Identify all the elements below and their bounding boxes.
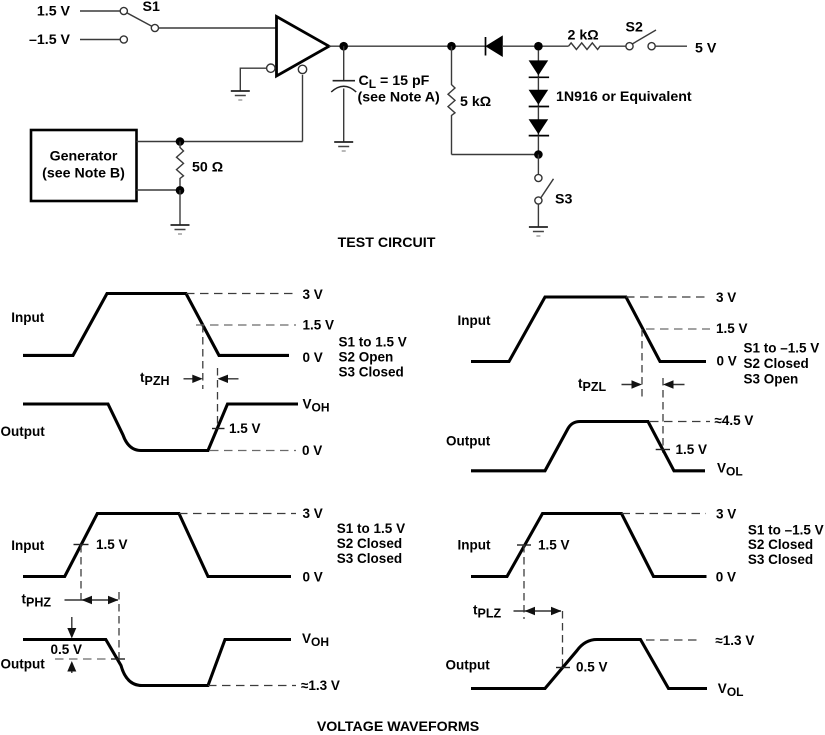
output waveform — [471, 422, 705, 471]
svg-text:S1 to 1.5 V: S1 to 1.5 V — [339, 335, 407, 350]
svg-text:S3: S3 — [555, 192, 572, 208]
svg-text:Output: Output — [1, 424, 46, 439]
resistor 5 kohm — [448, 46, 455, 154]
vertical dashed at output crossing — [562, 611, 564, 670]
ground — [334, 142, 353, 151]
node before diode — [447, 42, 456, 51]
svg-text:1.5 V: 1.5 V — [676, 442, 708, 457]
svg-text:Input: Input — [11, 310, 44, 325]
input waveform — [23, 514, 291, 577]
svg-text:S1 to 1.5 V: S1 to 1.5 V — [337, 521, 405, 536]
svg-text:1.5 V: 1.5 V — [229, 421, 261, 436]
svg-text:S3 Open: S3 Open — [744, 372, 799, 387]
capacitor CL — [331, 46, 356, 142]
svg-text:–1.5 V: –1.5 V — [29, 32, 71, 48]
input waveform — [471, 297, 706, 362]
vertical dashed at input crossing — [80, 545, 82, 605]
svg-text:0 V: 0 V — [303, 570, 323, 585]
up arrow 0.5V — [67, 661, 76, 673]
vertical dashed at output crossing — [217, 368, 219, 429]
svg-text:5 kΩ: 5 kΩ — [460, 94, 491, 110]
dashed 3V level — [186, 293, 296, 295]
wire S1 pole to buffer input — [159, 27, 277, 29]
svg-text:2 kΩ: 2 kΩ — [568, 28, 599, 44]
node — [176, 186, 185, 195]
output waveform — [23, 404, 298, 451]
svg-text:3 V: 3 V — [716, 290, 736, 305]
svg-text:S3 Closed: S3 Closed — [337, 551, 402, 566]
resistor 2 kohm — [569, 43, 626, 50]
dashed 1.5V level — [196, 324, 296, 326]
tPHZ arrow — [65, 596, 119, 604]
svg-text:S3 Closed: S3 Closed — [748, 552, 813, 567]
wire left bubble to ground — [240, 68, 266, 91]
dashed 3V level — [626, 296, 710, 298]
dashed 3V level — [622, 513, 707, 515]
svg-text:0 V: 0 V — [716, 569, 736, 584]
wire from -1.5V terminal — [80, 39, 120, 41]
diode D0 horizontal — [486, 36, 503, 56]
wire right bubble down to generator net — [302, 75, 304, 142]
svg-text:3 V: 3 V — [303, 506, 323, 521]
input waveform — [23, 294, 289, 356]
svg-text:Output: Output — [446, 657, 491, 672]
tick 0.5V on output edge — [556, 667, 570, 669]
wire buffer output bus — [329, 45, 486, 47]
svg-text:S3 Closed: S3 Closed — [339, 365, 404, 380]
vertical dashed at input crossing — [523, 545, 525, 619]
wire from 1.5V to S1 throw — [80, 10, 120, 12]
svg-text:S2 Closed: S2 Closed — [337, 536, 402, 551]
svg-text:(see Note A): (see Note A) — [358, 90, 441, 106]
dashed 1.3V level — [208, 685, 296, 687]
vertical dashed at input crossing — [202, 325, 204, 389]
svg-text:0 V: 0 V — [717, 354, 737, 369]
svg-text:≈1.3 V: ≈1.3 V — [715, 633, 754, 648]
svg-text:S1 to –1.5 V: S1 to –1.5 V — [744, 341, 820, 356]
svg-text:(see Note B): (see Note B) — [42, 166, 125, 182]
enable bubble right — [298, 65, 306, 73]
svg-text:0 V: 0 V — [303, 350, 323, 365]
wire node to ground — [179, 190, 181, 225]
switch S2 — [626, 30, 656, 50]
svg-text:S2: S2 — [626, 20, 643, 36]
svg-text:0 V: 0 V — [302, 443, 322, 458]
svg-text:3 V: 3 V — [303, 287, 323, 302]
diode stack 1N916 — [529, 50, 550, 154]
node above diode stack — [534, 42, 543, 51]
svg-text:0.5 V: 0.5 V — [51, 642, 83, 657]
dashed VOH-0.5 level — [55, 658, 110, 660]
svg-text:S2 Open: S2 Open — [339, 350, 394, 365]
wire diode to node — [502, 45, 569, 47]
svg-text:Input: Input — [11, 538, 44, 553]
dashed 1.3V level — [646, 639, 701, 641]
node at buffer output — [339, 42, 348, 51]
svg-text:Generator: Generator — [50, 149, 118, 165]
svg-text:Input: Input — [458, 537, 491, 552]
switch S3 — [535, 155, 554, 228]
tick 0.5V on output edge — [111, 658, 125, 660]
wire S2 to 5V — [655, 45, 687, 47]
svg-text:50 Ω: 50 Ω — [192, 160, 223, 176]
output waveform — [471, 640, 707, 689]
wire generator bottom — [137, 189, 181, 191]
svg-text:1.5 V: 1.5 V — [716, 321, 748, 336]
generator box — [31, 130, 137, 201]
dashed 3V level — [179, 513, 296, 515]
tick 1.5V on input edge — [517, 544, 531, 546]
dashed 0V output level — [210, 450, 296, 452]
tick 1.5V on output edge — [212, 428, 225, 430]
svg-text:1.5 V: 1.5 V — [37, 4, 71, 20]
tPZH arrows — [184, 375, 239, 383]
svg-text:0.5 V: 0.5 V — [576, 659, 608, 674]
tPLZ arrow — [514, 607, 562, 615]
resistor 50 ohm — [177, 142, 184, 191]
tick 1.5V on input edge — [74, 544, 89, 546]
svg-text:≈4.5 V: ≈4.5 V — [715, 413, 754, 428]
svg-text:S1 to –1.5 V: S1 to –1.5 V — [748, 522, 824, 537]
svg-text:Output: Output — [446, 433, 491, 448]
tPZL arrows — [622, 380, 685, 388]
vertical dashed at output crossing — [118, 592, 120, 662]
svg-text:Input: Input — [458, 313, 491, 328]
ground — [231, 91, 250, 100]
svg-text:1.5 V: 1.5 V — [96, 537, 128, 552]
svg-text:S2 Closed: S2 Closed — [744, 356, 809, 371]
tick 1.5V on output edge — [656, 449, 670, 451]
svg-text:VOLTAGE WAVEFORMS: VOLTAGE WAVEFORMS — [317, 719, 479, 735]
switch S1 — [120, 7, 158, 43]
svg-text:S2 Closed: S2 Closed — [748, 537, 813, 552]
wire generator top output — [137, 141, 303, 143]
svg-text:3 V: 3 V — [716, 506, 736, 521]
dashed 4.5V level — [650, 421, 710, 423]
wire 5k to stack bottom — [452, 154, 539, 156]
svg-text:≈1.3 V: ≈1.3 V — [301, 678, 340, 693]
node — [176, 137, 185, 146]
svg-text:1.5 V: 1.5 V — [538, 538, 570, 553]
svg-text:1.5 V: 1.5 V — [303, 318, 335, 333]
op-amp buffer U1 — [277, 17, 330, 77]
svg-text:Output: Output — [1, 656, 46, 671]
ground — [529, 227, 548, 236]
vertical dashed at output crossing — [662, 378, 664, 453]
dashed 1.5V level — [646, 328, 710, 330]
ground — [171, 225, 190, 234]
svg-text:1N916 or Equivalent: 1N916 or Equivalent — [556, 89, 692, 105]
enable bubble left — [267, 64, 275, 72]
svg-text:5 V: 5 V — [695, 41, 717, 57]
down arrow 0.5V — [67, 617, 76, 639]
input waveform — [471, 514, 707, 577]
vertical dashed at input crossing — [641, 329, 643, 397]
output waveform — [23, 640, 291, 686]
svg-text:S1: S1 — [143, 0, 160, 15]
svg-text:TEST CIRCUIT: TEST CIRCUIT — [338, 235, 436, 251]
node — [534, 150, 543, 159]
